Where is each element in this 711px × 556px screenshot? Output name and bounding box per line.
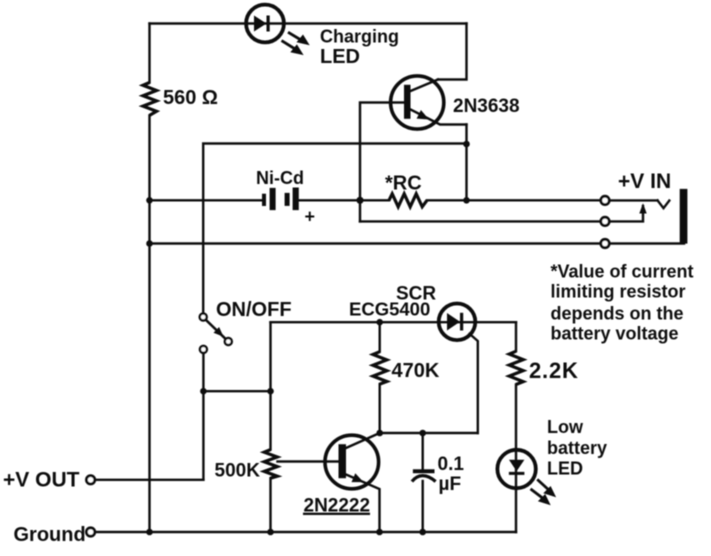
- svg-text:2N3638: 2N3638: [453, 96, 520, 117]
- svg-text:470K: 470K: [392, 360, 440, 382]
- svg-text:LED: LED: [320, 46, 360, 68]
- svg-text:ON/OFF: ON/OFF: [216, 299, 292, 321]
- svg-text:depends on the: depends on the: [551, 303, 684, 323]
- svg-text:battery: battery: [547, 438, 607, 458]
- svg-text:2N2222: 2N2222: [304, 496, 371, 517]
- svg-text:+V IN: +V IN: [618, 170, 671, 193]
- svg-text:500K: 500K: [215, 461, 261, 482]
- svg-text:limiting resistor: limiting resistor: [551, 282, 686, 302]
- svg-text:Ground: Ground: [14, 524, 86, 546]
- svg-text:ECG5400: ECG5400: [349, 299, 430, 320]
- svg-text:0.1: 0.1: [438, 454, 465, 475]
- svg-text:*RC: *RC: [385, 173, 422, 195]
- svg-text:*Value of current: *Value of current: [551, 261, 694, 281]
- svg-text:+V OUT: +V OUT: [3, 469, 80, 492]
- svg-text:Charging: Charging: [320, 27, 399, 47]
- svg-text:Low: Low: [547, 417, 584, 437]
- svg-text:2.2K: 2.2K: [529, 358, 579, 383]
- svg-text:µF: µF: [439, 474, 462, 495]
- svg-text:Ni-Cd: Ni-Cd: [256, 168, 304, 188]
- svg-text:+: +: [305, 206, 316, 226]
- svg-text:560 Ω: 560 Ω: [163, 87, 218, 109]
- svg-text:battery voltage: battery voltage: [551, 324, 679, 344]
- svg-text:LED: LED: [547, 459, 583, 479]
